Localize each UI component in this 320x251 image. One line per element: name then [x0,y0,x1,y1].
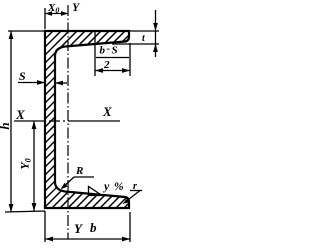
dimension (b-S)/2 [95,32,130,76]
channel section outline [45,31,129,208]
dimension S (web thickness) [18,82,45,84]
X axis (horizontal dash-dot) [14,120,120,122]
svg-text:h: h [0,122,12,129]
svg-text:b: b [90,220,97,235]
svg-text:Y: Y [74,221,83,236]
svg-text:2: 2 [103,59,110,71]
svg-text:b: b [100,45,106,57]
svg-text:у: у [102,179,110,193]
svg-text:%: % [114,181,124,193]
svg-text:Y: Y [72,0,81,14]
svg-text:Y0: Y0 [18,158,33,169]
svg-text:X: X [102,104,112,119]
svg-text:S: S [112,45,118,57]
dimension Y0 [33,121,35,211]
svg-text:X0: X0 [47,2,59,15]
svg-text:R: R [75,165,83,177]
dimension h (left) [5,31,45,212]
hatch (section fill) [0,0,162,251]
dimension X0 (top) [45,8,68,29]
svg-text:t: t [142,33,146,44]
slope triangle [89,187,103,196]
svg-text:X: X [15,107,25,122]
svg-text:S: S [19,69,26,83]
dimension t (flange thickness, right) [112,10,159,57]
svg-text:-: - [107,43,111,55]
Y axis (vertical dash-dot) [67,5,69,239]
dimension b (bottom) [45,211,130,242]
